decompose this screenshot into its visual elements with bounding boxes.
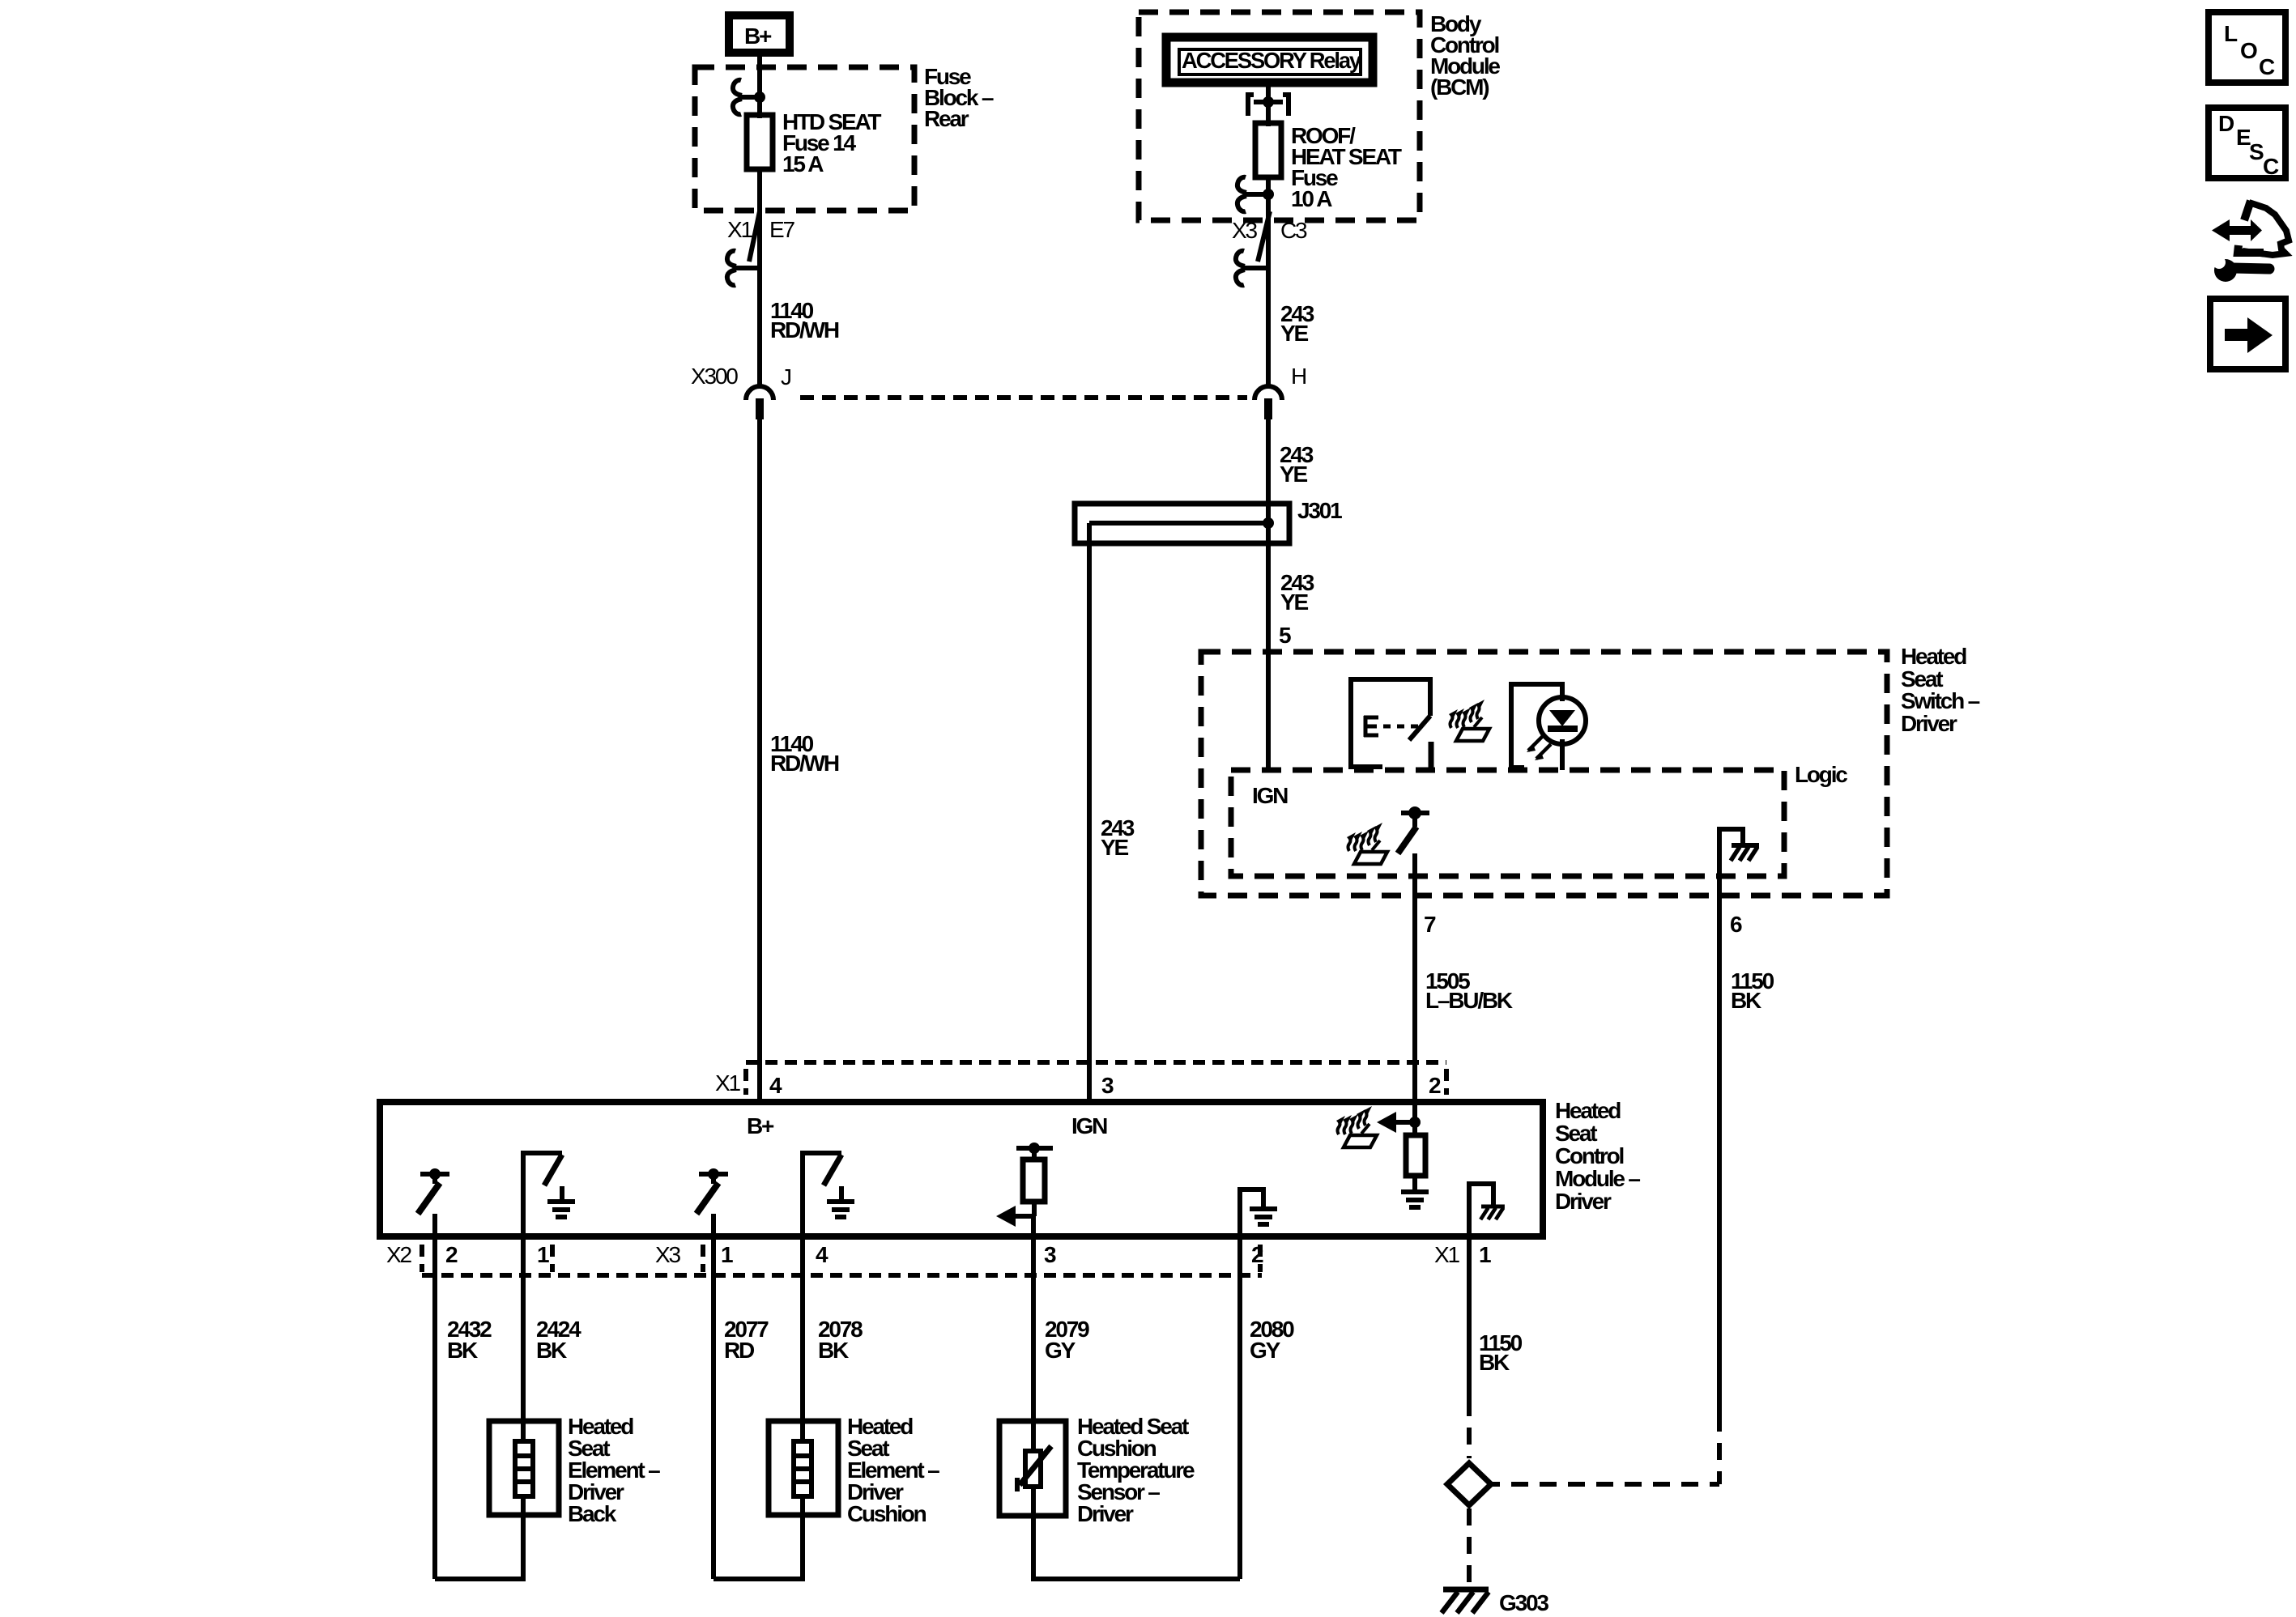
wire X3-3 to temp sensor: [1031, 1216, 1036, 1451]
svg-text:Seat: Seat: [1555, 1121, 1597, 1146]
svg-text:BK: BK: [818, 1338, 849, 1363]
svg-text:2: 2: [445, 1242, 458, 1267]
chassis ground X1-1: [1469, 1184, 1505, 1236]
heated seat cushion temperature sensor: [999, 1421, 1066, 1516]
svg-text:X3: X3: [655, 1242, 680, 1267]
svg-text:BK: BK: [1479, 1350, 1510, 1375]
svg-text:1: 1: [537, 1242, 549, 1267]
ground switch X2-1: [523, 1153, 575, 1236]
body control module BCM dashed box: [1139, 12, 1420, 220]
svg-text:Logic: Logic: [1795, 762, 1847, 787]
svg-text:1: 1: [1479, 1242, 1491, 1267]
svg-text:X2: X2: [386, 1242, 411, 1267]
heater drive icon (module): [1336, 1106, 1377, 1147]
ground icon (logic pin 6): [1719, 829, 1759, 861]
dashed wire splice to G303: [1467, 1508, 1472, 1583]
svg-text:Heated: Heated: [1555, 1098, 1621, 1123]
svg-text:D: D: [2218, 111, 2234, 136]
switch pin 5 wire: [1266, 653, 1271, 769]
svg-text:X1: X1: [1434, 1242, 1459, 1267]
next page arrow icon: [2210, 299, 2285, 369]
svg-text:Heated: Heated: [1901, 644, 1966, 669]
element cushion loop wire: [714, 1508, 803, 1579]
heated seat element driver back: [489, 1421, 559, 1515]
svg-text:GY: GY: [1045, 1338, 1076, 1363]
svg-text:6: 6: [1730, 912, 1742, 937]
svg-text:YE: YE: [1280, 462, 1307, 487]
relay output terminal posts: [1248, 95, 1289, 116]
svg-text:X1: X1: [715, 1070, 740, 1096]
svg-text:RD: RD: [724, 1338, 755, 1363]
fuse HTD SEAT Fuse 14 15 A: [747, 109, 881, 177]
wire B+ to fuse 14: [757, 53, 762, 118]
svg-text:Module –: Module –: [1555, 1166, 1640, 1191]
svg-text:E7: E7: [769, 217, 794, 242]
battery feed B+: [729, 15, 790, 53]
wire X3-4 to element cushion: [800, 1240, 805, 1508]
ACCESSORY Relay: [1166, 37, 1373, 83]
svg-text:Cushion: Cushion: [847, 1501, 926, 1526]
wire X2-2 down: [432, 1214, 437, 1579]
svg-text:J: J: [781, 364, 790, 389]
ground G303: [1442, 1589, 1489, 1613]
module top connector X1 dashed row: [746, 1060, 1446, 1065]
wire X3-1 down: [711, 1214, 716, 1579]
wire fuse to connector X1/E7: [757, 169, 762, 387]
svg-text:YE: YE: [1280, 321, 1308, 346]
svg-text:Control: Control: [1555, 1143, 1624, 1168]
svg-text:GY: GY: [1250, 1338, 1281, 1363]
svg-text:Driver: Driver: [1901, 711, 1957, 736]
svg-text:10 A: 10 A: [1291, 186, 1332, 211]
svg-text:C: C: [2263, 154, 2279, 179]
svg-text:O: O: [2240, 38, 2257, 63]
LOC icon: [2209, 12, 2285, 83]
svg-text:7: 7: [1424, 912, 1436, 937]
dashed wire to splice: [1467, 1399, 1472, 1458]
dashed wire splice to pin 6 wire: [1511, 1482, 1719, 1487]
ground switch X3-4: [803, 1153, 854, 1236]
heater output icon (logic): [1347, 823, 1387, 864]
svg-text:IGN: IGN: [1252, 783, 1288, 808]
element back loop wire: [435, 1508, 523, 1579]
svg-text:H: H: [1291, 364, 1306, 389]
output switch X3-1: [696, 1168, 728, 1214]
temperature sense input X3-3: [996, 1143, 1053, 1227]
wire switch pin 7 to module: [1412, 853, 1417, 1135]
wire H to J301: [1266, 411, 1271, 504]
ground X3-2: [1240, 1189, 1277, 1236]
temp sensor loop wire: [1033, 1487, 1240, 1579]
svg-text:RD/WH: RD/WH: [770, 317, 839, 343]
splice pack J301: [1075, 498, 1342, 547]
svg-text:Driver: Driver: [1077, 1501, 1134, 1526]
svg-text:Switch –: Switch –: [1901, 688, 1980, 713]
connector clip X3: [1236, 251, 1266, 286]
sense resistor (module): [1401, 1135, 1429, 1207]
branch wire 243 YE to module pin 3: [1087, 523, 1092, 1102]
svg-text:B+: B+: [747, 1113, 774, 1138]
svg-text:IGN: IGN: [1071, 1113, 1107, 1138]
arrow to heater icon: [1377, 1112, 1421, 1133]
svg-text:X3: X3: [1232, 218, 1257, 243]
svg-text:C: C: [2259, 54, 2275, 79]
switch arm (logic): [1398, 806, 1429, 853]
svg-text:1: 1: [721, 1242, 733, 1267]
svg-text:5: 5: [1279, 623, 1291, 648]
svg-text:BK: BK: [1731, 988, 1761, 1013]
fuse ROOF/HEAT SEAT 10 A: [1255, 123, 1402, 211]
mode switch icon: [1351, 679, 1431, 769]
svg-text:RD/WH: RD/WH: [770, 751, 839, 776]
adjust hand icon: [2212, 201, 2289, 282]
dashed connector line X300: [800, 395, 1247, 400]
svg-text:Driver: Driver: [1555, 1189, 1612, 1214]
heated seat switch driver dashed box: [1201, 652, 1887, 896]
svg-text:3: 3: [1044, 1242, 1056, 1267]
svg-text:L–BU/BK: L–BU/BK: [1425, 988, 1513, 1013]
svg-text:L: L: [2224, 21, 2238, 46]
LED indicator: [1511, 684, 1586, 770]
connector clip X1: [727, 251, 757, 286]
wire J301 to switch pin 5: [1266, 543, 1271, 653]
module bottom connector dashed row: [422, 1273, 1262, 1278]
wire X300 to module pin 4: [757, 411, 762, 1102]
logic dashed box: [1231, 770, 1784, 876]
svg-text:J301: J301: [1297, 498, 1342, 523]
svg-text:X300: X300: [691, 364, 738, 389]
svg-text:G303: G303: [1499, 1590, 1548, 1615]
heated seat element driver cushion: [769, 1421, 838, 1515]
wire X1-1 ground 1150 BK: [1467, 1240, 1472, 1399]
svg-text:X1: X1: [727, 217, 752, 242]
svg-text:2: 2: [1429, 1073, 1441, 1098]
fuse clip upper: [733, 80, 765, 115]
wire relay to fuse: [1266, 83, 1271, 126]
wire switch pin 6 down: [1717, 834, 1722, 1415]
wire C3 to X300 H: [1266, 214, 1271, 387]
svg-text:15 A: 15 A: [782, 151, 824, 177]
connector X1/E7 slash: [749, 211, 760, 262]
connector X3/C3 slash: [1258, 211, 1270, 262]
svg-text:C3: C3: [1280, 218, 1307, 243]
svg-text:3: 3: [1101, 1073, 1114, 1098]
svg-text:BK: BK: [536, 1338, 567, 1363]
svg-text:S: S: [2249, 139, 2264, 164]
fuse clip lower (BCM): [1237, 177, 1274, 217]
inline connector X300 H: [1254, 364, 1306, 419]
svg-text:YE: YE: [1280, 589, 1308, 615]
inline connector X300 J: [691, 364, 790, 419]
svg-text:B+: B+: [744, 23, 772, 49]
splice diamond: [1447, 1463, 1500, 1505]
output switch X2-2: [418, 1168, 449, 1214]
wire X3-2 down: [1237, 1240, 1242, 1579]
svg-text:YE: YE: [1101, 835, 1128, 860]
heated seat control module box: [380, 1102, 1543, 1236]
svg-text:2: 2: [1251, 1242, 1263, 1267]
svg-text:(BCM): (BCM): [1430, 74, 1489, 100]
svg-text:ACCESSORY Relay: ACCESSORY Relay: [1182, 48, 1362, 73]
svg-text:Rear: Rear: [924, 106, 969, 131]
svg-text:Back: Back: [568, 1501, 617, 1526]
DESC icon: [2209, 108, 2285, 179]
svg-text:BK: BK: [447, 1338, 478, 1363]
heated seat indicator icon (switch): [1449, 700, 1489, 741]
fuse block rear dashed box: [695, 67, 914, 211]
wire X2-1 to element back: [521, 1240, 526, 1508]
